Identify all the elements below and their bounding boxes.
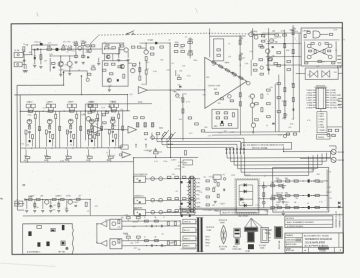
diode CR11: [244, 190, 247, 193]
svg-text:16: 16: [154, 237, 156, 239]
svg-text:15k: 15k: [184, 93, 187, 95]
resistor: [188, 117, 192, 119]
resistor: [267, 116, 271, 118]
resistor R5: [40, 55, 42, 60]
wire: [25, 150, 27, 156]
wire: [23, 54, 25, 56]
svg-text:4 YEL: 4 YEL: [318, 121, 323, 123]
node: [263, 185, 264, 186]
svg-text:.01: .01: [326, 73, 329, 75]
output network box: [273, 167, 329, 212]
transistor: [120, 64, 124, 68]
resistor R71: [141, 117, 145, 119]
svg-text:560: 560: [22, 49, 25, 51]
wire: [282, 210, 284, 212]
node: [42, 199, 43, 200]
wire: [170, 89, 205, 91]
electrolytic cap: [308, 194, 310, 197]
resistor: [328, 129, 332, 131]
resistor: [206, 180, 209, 182]
svg-text:47k: 47k: [199, 192, 202, 194]
pot box: [51, 104, 55, 108]
resistor R44: [118, 114, 120, 118]
node: [313, 180, 314, 181]
wire: [45, 150, 47, 156]
svg-text:NOTES: NOTES: [286, 218, 294, 220]
node: [26, 199, 27, 200]
resistor R11: [91, 68, 95, 70]
svg-text:.01: .01: [78, 70, 81, 72]
resistor R81: [188, 53, 193, 55]
svg-text:4.7k: 4.7k: [48, 42, 52, 44]
resistor R98: [182, 98, 184, 102]
resistor R130: [28, 199, 32, 201]
wire: [311, 47, 329, 55]
resistor R143: [271, 185, 275, 187]
svg-text:2N2148: 2N2148: [338, 152, 344, 154]
wire: [127, 220, 129, 222]
resistor R34: [111, 110, 115, 112]
resistor: [284, 101, 286, 105]
svg-text:10k: 10k: [25, 162, 28, 164]
resistor: [286, 206, 290, 208]
node: [268, 43, 269, 44]
fanout wires above tube 2: [245, 218, 251, 227]
wire: [119, 49, 123, 51]
svg-text:OUTPUT TRANS: OUTPUT TRANS: [163, 211, 178, 214]
node: [313, 195, 314, 196]
node: [133, 157, 134, 158]
resistor R43: [97, 114, 99, 118]
wire: [139, 62, 141, 75]
svg-text:6BQ5: 6BQ5: [205, 242, 210, 244]
wire: [108, 149, 110, 155]
wire: [104, 54, 106, 61]
resistor R16: [137, 46, 141, 48]
transistor Q1: [55, 48, 58, 51]
resistor: [174, 222, 176, 226]
svg-text:10k: 10k: [176, 94, 179, 96]
output row 1: [274, 180, 327, 182]
svg-text:2N508: 2N508: [318, 182, 324, 184]
wire: [122, 244, 180, 246]
wire: [32, 44, 58, 46]
resistor R113: [284, 43, 286, 47]
capacitor: [70, 140, 72, 142]
svg-text:2.2k: 2.2k: [80, 41, 84, 43]
resistor R110: [275, 34, 279, 36]
hatch marks: [151, 123, 153, 127]
node: [56, 49, 57, 50]
resistor: [167, 176, 171, 178]
svg-text:A ALL SCHEMATIC FIGURES: A ALL SCHEMATIC FIGURES: [287, 221, 314, 224]
node: [170, 157, 171, 158]
diode CR4: [273, 123, 275, 125]
wire: [68, 108, 70, 111]
transistor Q3: [67, 61, 72, 66]
resistor: [23, 47, 25, 52]
svg-text:.047: .047: [212, 187, 216, 189]
socket box icon: [261, 227, 269, 242]
transistor Q6: [124, 48, 128, 52]
output transformer T2: [197, 218, 199, 252]
svg-text:.01: .01: [72, 42, 75, 44]
wire: [145, 178, 196, 180]
resistor: [156, 133, 160, 135]
wire: [285, 223, 333, 225]
resistor: [190, 198, 194, 200]
wire: [137, 220, 139, 221]
svg-text:GO-B AMPLIFIER: GO-B AMPLIFIER: [305, 241, 325, 244]
wire: [55, 111, 57, 114]
op-amp triangle U3: [128, 126, 137, 133]
switch cluster S1: [213, 175, 221, 180]
svg-text:.047: .047: [174, 168, 178, 170]
wire: [84, 104, 86, 140]
resistor R119: [329, 33, 332, 35]
resistor R102: [261, 94, 263, 98]
node: [40, 49, 41, 50]
wire: [262, 32, 301, 34]
wire: [95, 48, 102, 50]
chassis part: [28, 231, 31, 236]
ground: [108, 89, 111, 91]
capacitor: [91, 140, 93, 142]
wire: [15, 203, 24, 205]
wire: [251, 98, 253, 103]
svg-text:6V6: 6V6: [214, 89, 217, 91]
resistor R117: [287, 61, 291, 63]
svg-text:12AU7: 12AU7: [26, 100, 33, 103]
svg-text:220k: 220k: [158, 152, 162, 154]
resistor R31: [48, 110, 52, 112]
svg-text:6 ORN: 6 ORN: [318, 127, 324, 129]
wire: [49, 124, 51, 128]
wire: [17, 84, 64, 86]
svg-text:15k: 15k: [177, 85, 180, 87]
title grid: [307, 247, 309, 252]
wire: [268, 28, 270, 74]
svg-text:470: 470: [271, 40, 274, 42]
svg-text:VIEW: VIEW: [260, 248, 265, 250]
svg-text:6.8k: 6.8k: [245, 63, 249, 65]
wire: [110, 104, 112, 109]
resistor R67: [145, 70, 147, 74]
resistor R69: [88, 111, 92, 113]
resistor R95: [232, 113, 234, 117]
svg-text:12AX7: 12AX7: [73, 201, 79, 204]
resistor R32: [69, 110, 73, 112]
resistor R41: [55, 114, 57, 118]
svg-text:RECTIFIER: RECTIFIER: [238, 216, 249, 218]
arrow mark: [63, 72, 64, 74]
svg-text:1k: 1k: [267, 93, 269, 95]
transistor Q4: [78, 46, 82, 50]
capacitor: [28, 131, 30, 134]
transistor Q23: [250, 94, 254, 98]
svg-text:33k: 33k: [275, 42, 278, 44]
wire: [59, 111, 61, 148]
wire: [112, 54, 114, 61]
resistor R82: [217, 49, 220, 51]
feed wires to output transistors: [284, 150, 331, 152]
resistor R58: [88, 156, 93, 158]
svg-text:.047: .047: [46, 111, 50, 113]
svg-text:50: 50: [294, 202, 296, 204]
color list box: [317, 112, 327, 133]
diode: [139, 180, 140, 182]
svg-text:.01: .01: [273, 198, 276, 200]
resistor: [175, 176, 179, 178]
chassis part: [51, 228, 55, 231]
transistor: [159, 177, 163, 181]
svg-text:1k: 1k: [212, 65, 214, 67]
svg-text:WITH NO SIGNAL: WITH NO SIGNAL: [252, 146, 268, 149]
transistor: [151, 198, 155, 202]
resistor: [167, 222, 169, 226]
svg-text:250k: 250k: [27, 114, 31, 116]
resistor R91: [216, 112, 220, 114]
apex transistor: [246, 81, 250, 85]
resistor Rx41: [59, 126, 61, 130]
wire: [239, 204, 252, 206]
capacitor: [112, 130, 114, 133]
svg-text:1M: 1M: [295, 198, 298, 200]
wire: [110, 158, 112, 161]
wire: [266, 43, 301, 45]
ground: [97, 62, 100, 64]
switch SW1: [126, 33, 128, 35]
svg-text:2.2k: 2.2k: [187, 210, 191, 212]
chassis part: [61, 241, 65, 245]
title grid: [285, 241, 302, 243]
capacitor: [36, 48, 39, 50]
capacitor: [29, 140, 31, 142]
node: [49, 111, 50, 112]
node: [137, 178, 138, 179]
chassis layout box: [23, 224, 74, 254]
svg-text:2N508: 2N508: [90, 121, 96, 123]
wire: [110, 107, 112, 110]
svg-text:6.8k: 6.8k: [327, 187, 331, 189]
svg-text:3B: 3B: [22, 184, 25, 187]
resistor: [206, 204, 209, 206]
resistor: [277, 97, 281, 99]
capacitor: [189, 203, 191, 205]
speaker jack arrow 2: [101, 240, 107, 246]
wire: [34, 111, 36, 114]
pot box: [88, 104, 92, 108]
svg-text:220k: 220k: [311, 169, 315, 171]
resistor Redge: [338, 66, 341, 68]
filter capacitor C20: [262, 185, 265, 188]
ground: [25, 210, 28, 212]
svg-text:.02: .02: [66, 132, 69, 134]
resistor: [206, 196, 209, 198]
wire: [115, 138, 117, 146]
resistor: [277, 206, 281, 208]
wire: [91, 133, 93, 138]
wire: [115, 107, 117, 110]
node: [70, 111, 71, 112]
diode CR3: [179, 86, 181, 88]
svg-text:VIEW: VIEW: [220, 249, 225, 251]
svg-text:6CA4: 6CA4: [148, 39, 154, 42]
svg-text:.01: .01: [323, 130, 326, 132]
capacitor: [189, 181, 191, 183]
wire: [91, 36, 99, 44]
wire: [122, 111, 124, 148]
resistor R3: [62, 48, 66, 50]
transistor Q2: [58, 62, 63, 67]
wire: [66, 199, 68, 208]
svg-text:2.2k: 2.2k: [112, 155, 116, 157]
capacitor: [160, 225, 163, 227]
capacitor C2: [34, 57, 36, 59]
wire: [250, 60, 252, 76]
svg-text:47k: 47k: [21, 143, 24, 145]
wire: [45, 134, 47, 146]
svg-text:4.7k: 4.7k: [179, 97, 183, 99]
wire: [145, 66, 147, 70]
output row 2: [274, 194, 327, 196]
pot box: [31, 104, 35, 108]
resistor: [292, 97, 294, 101]
transistor: [159, 198, 163, 202]
svg-text:6.8k: 6.8k: [135, 242, 139, 244]
component box: [214, 39, 224, 61]
svg-text:250k: 250k: [86, 50, 90, 52]
svg-text:500k: 500k: [159, 128, 163, 130]
capacitor: [150, 225, 153, 227]
svg-text:4.7k: 4.7k: [280, 196, 284, 198]
driver box: [110, 219, 122, 229]
svg-text:560: 560: [146, 62, 149, 64]
resistor: [217, 183, 219, 187]
diode CR1: [53, 66, 55, 68]
resistor R132: [52, 198, 56, 200]
resistor R136: [34, 203, 36, 207]
resistor R37: [70, 125, 72, 129]
transistor Q29: [328, 44, 332, 48]
wire: [252, 127, 254, 133]
resistor: [284, 87, 286, 91]
node: [303, 180, 304, 181]
wire: [239, 190, 252, 192]
svg-text:47k: 47k: [288, 127, 291, 129]
crossover box: [305, 68, 338, 80]
resistor R64: [132, 64, 136, 66]
svg-text:68k: 68k: [291, 84, 294, 86]
resistor Rx42: [80, 126, 82, 130]
resistor R137: [58, 203, 60, 207]
hatch marks: [136, 123, 138, 127]
wire: [89, 108, 91, 111]
diode: [139, 201, 140, 203]
transistor Q18: [88, 135, 92, 139]
transistor Q14: [110, 119, 115, 124]
diode CR13: [244, 204, 247, 207]
node: [146, 43, 147, 44]
resistor R84: [239, 40, 241, 44]
transistor Q26b: [283, 134, 286, 137]
svg-text:6.8k: 6.8k: [230, 72, 234, 74]
resistor: [335, 129, 339, 131]
svg-text:10k: 10k: [46, 103, 49, 105]
node: [180, 245, 181, 246]
resistor R46: [45, 130, 47, 134]
resistor R144b: [279, 198, 283, 200]
wire: [252, 28, 254, 59]
supply bus wire: [20, 110, 130, 112]
wire: [161, 137, 163, 145]
svg-text:.02: .02: [87, 211, 90, 213]
wire: [58, 199, 60, 208]
transistor Q13: [89, 119, 94, 124]
svg-text:4.7k: 4.7k: [341, 39, 345, 41]
svg-text:.047: .047: [94, 206, 98, 208]
wire: [112, 124, 114, 128]
capacitor: [70, 130, 72, 133]
svg-text:10k: 10k: [172, 174, 175, 176]
chassis part: [51, 229, 54, 231]
resistor: [136, 217, 140, 219]
bus wire: [179, 207, 342, 210]
wire: [122, 220, 180, 222]
ground: [282, 213, 285, 215]
resistor R134: [76, 198, 80, 200]
wire: [34, 119, 36, 148]
resistor R72: [88, 130, 92, 132]
svg-text:560: 560: [179, 207, 182, 209]
wire: [266, 56, 301, 58]
svg-text:.047: .047: [132, 226, 136, 228]
jack box: [134, 176, 146, 182]
wire: [26, 200, 28, 209]
wire: [263, 182, 265, 208]
resistor: [315, 206, 319, 208]
bank lower wire: [21, 147, 122, 149]
wire: [47, 159, 49, 162]
svg-text:220k: 220k: [231, 175, 235, 177]
node: [139, 63, 140, 64]
svg-text:1M: 1M: [25, 45, 28, 47]
resistor R47: [66, 130, 68, 134]
svg-text:15k: 15k: [78, 199, 81, 201]
wire: [32, 108, 34, 111]
wire: [258, 198, 286, 200]
svg-text:5Y3: 5Y3: [205, 245, 208, 247]
svg-text:33k: 33k: [182, 167, 185, 169]
node circle: [119, 154, 121, 156]
transistor Q7: [144, 50, 148, 54]
resistor R133: [60, 198, 64, 200]
resistor R9: [74, 55, 77, 57]
resistor R90: [274, 63, 278, 65]
svg-text:YEL: YEL: [196, 194, 199, 196]
svg-text:2N2148: 2N2148: [338, 160, 344, 162]
wire: [49, 58, 51, 71]
svg-text:15k: 15k: [65, 208, 68, 210]
capacitor C5: [155, 42, 157, 44]
resistor R123: [305, 62, 308, 64]
resistor: [144, 133, 148, 135]
resistor R96: [220, 124, 224, 126]
resistor: [174, 44, 178, 46]
wire: [137, 239, 139, 240]
node: [293, 56, 294, 57]
wire: [52, 139, 54, 147]
